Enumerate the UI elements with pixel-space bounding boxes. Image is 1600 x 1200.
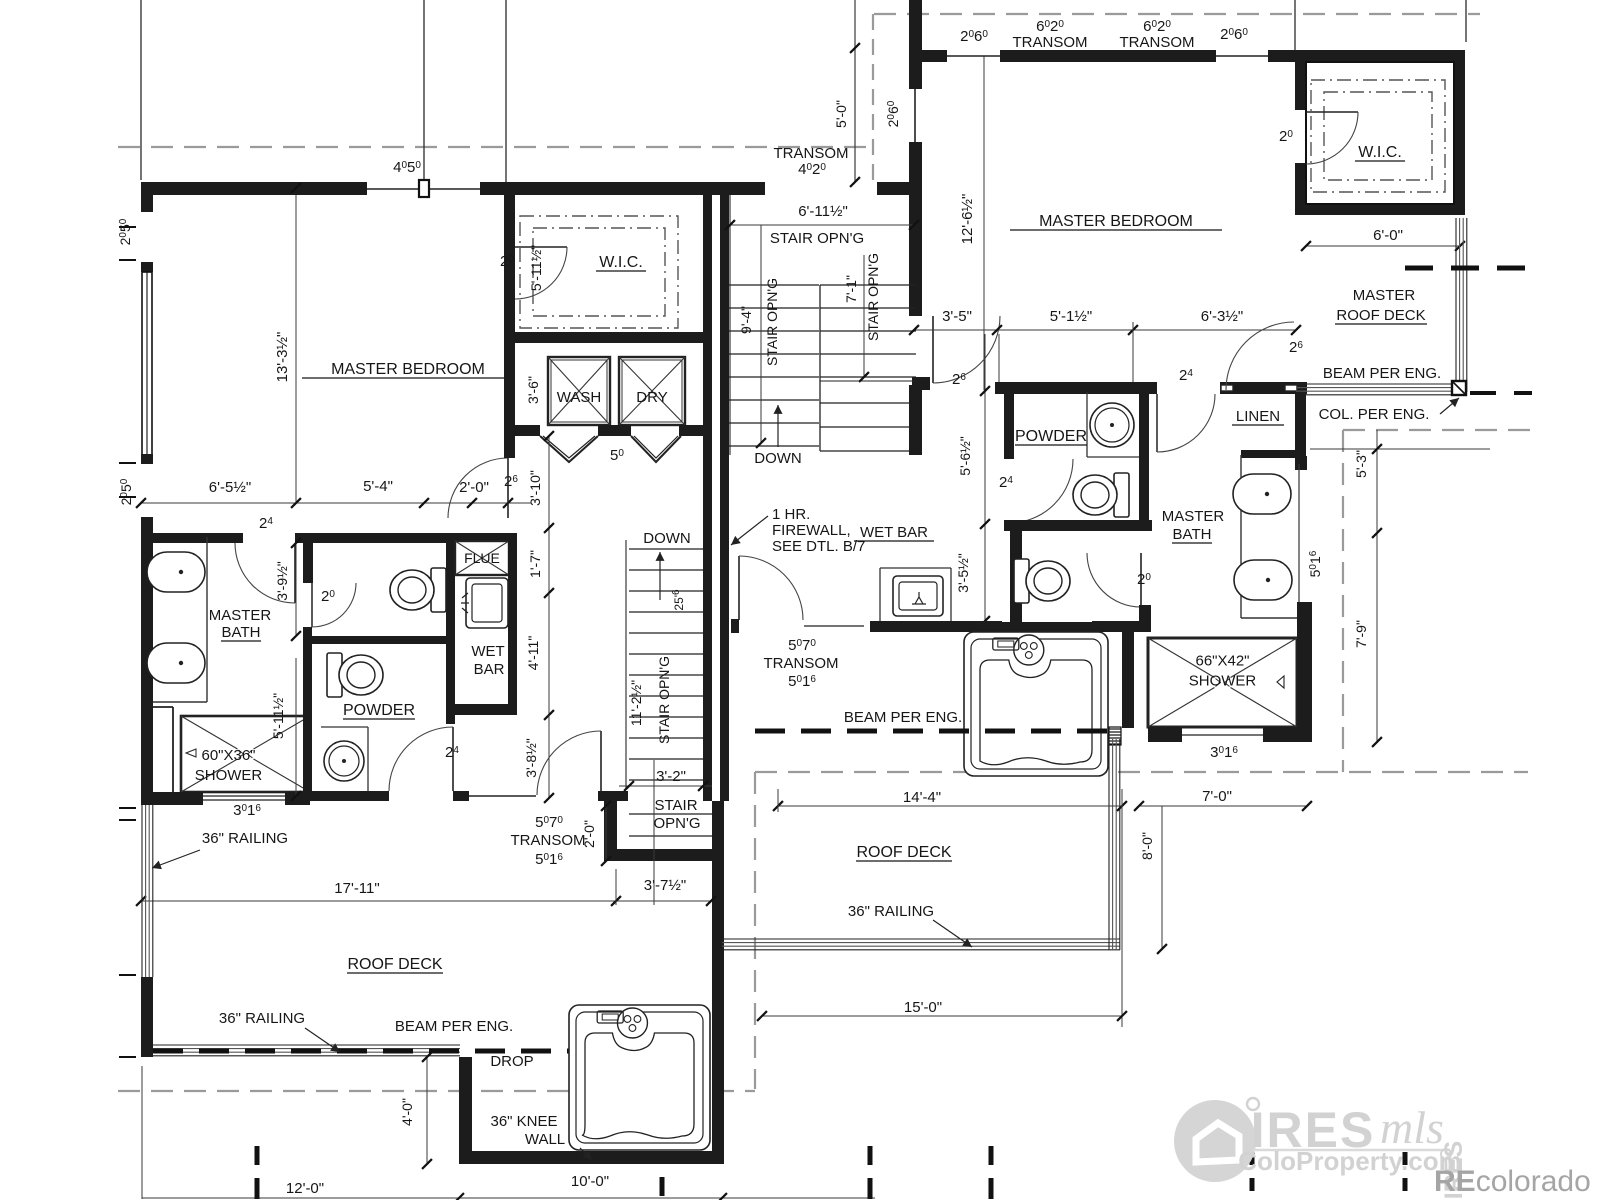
svg-text:WET: WET	[471, 643, 504, 660]
bath chase partition	[172, 707, 174, 794]
svg-text:17'-11": 17'-11"	[334, 880, 379, 897]
lower right flight treads	[820, 402, 909, 404]
left exterior wall upper corner	[141, 182, 153, 212]
svg-text:4'-0": 4'-0"	[399, 1098, 415, 1126]
right unit top wall east segment	[1268, 50, 1465, 62]
svg-text:SEE DTL. B/7: SEE DTL. B/7	[772, 538, 865, 555]
svg-text:POWDER: POWDER	[343, 702, 415, 719]
svg-text:BEAM PER ENG.: BEAM PER ENG.	[395, 1018, 513, 1035]
svg-text:MASTER: MASTER	[1353, 287, 1416, 304]
shower 60x36	[181, 716, 310, 792]
dryer box DRY	[619, 357, 685, 425]
lower stair direction arrow	[659, 552, 661, 600]
svg-text:OPN'G: OPN'G	[653, 815, 700, 832]
svg-text:STAIR: STAIR	[654, 797, 697, 814]
window 2-6 sill line east	[1216, 55, 1268, 57]
svg-text:DRY: DRY	[636, 389, 667, 406]
col per eng leader	[1440, 398, 1459, 414]
svg-text:REcolorado: REcolorado	[1434, 1165, 1591, 1198]
party wall west leaf	[703, 182, 712, 801]
right powder south wall	[1004, 520, 1152, 531]
right bedroom south wall west	[995, 382, 1157, 394]
svg-text:TRANSOM: TRANSOM	[1013, 34, 1088, 51]
roof overhang dashed vertical connector	[872, 14, 874, 182]
left wall lower solid	[141, 977, 153, 1057]
right powder east wall	[1139, 391, 1149, 520]
bath top wall east	[295, 533, 310, 543]
right deck railing south	[722, 938, 1120, 940]
svg-text:STAIR OPN'G: STAIR OPN'G	[656, 656, 672, 744]
window 4-0x5-0 sill line	[367, 188, 480, 190]
svg-text:3'-5": 3'-5"	[942, 308, 972, 325]
svg-text:WALL: WALL	[525, 1131, 565, 1148]
stair landing line	[820, 376, 916, 378]
right wet bar counter	[880, 567, 951, 569]
svg-text:DROP: DROP	[490, 1053, 533, 1070]
deck corner column block	[1452, 381, 1466, 395]
linen corner piece	[1295, 456, 1307, 470]
bath door arc	[235, 543, 295, 603]
powder east wall	[446, 644, 455, 724]
svg-text:FLUE: FLUE	[464, 550, 500, 566]
right powder sink	[1090, 403, 1134, 447]
extension lines 14-4	[777, 789, 779, 812]
stair jog wall	[877, 182, 909, 195]
stairwell east wall mid	[909, 195, 922, 316]
svg-text:ROOF DECK: ROOF DECK	[347, 956, 442, 973]
svg-text:60"X36": 60"X36"	[201, 747, 255, 764]
right bath east wall lower	[1297, 620, 1312, 742]
right bath sink north	[1233, 474, 1291, 514]
heavy dash right of deck	[1470, 391, 1532, 395]
svg-text:TRANSOM: TRANSOM	[764, 655, 839, 672]
svg-text:8'-0": 8'-0"	[1139, 832, 1155, 860]
right bath east wall stub	[1297, 602, 1312, 629]
svg-text:15'-0": 15'-0"	[904, 999, 942, 1016]
right hall south wall east piece	[1092, 621, 1150, 632]
bath vanity counter line	[206, 537, 208, 702]
extension line x1144	[1132, 322, 1134, 388]
roof overhang dashed right side horizontal	[1343, 429, 1532, 431]
right toilet closet toilet	[1014, 559, 1070, 603]
upper stair treads left flight	[729, 284, 819, 286]
right wet bar sink	[893, 576, 943, 616]
party wall lower (knee wall)	[712, 801, 724, 1164]
svg-text:STAIR OPN'G: STAIR OPN'G	[764, 278, 780, 366]
svg-text:3'-9½": 3'-9½"	[274, 561, 290, 601]
svg-text:TRANSOM: TRANSOM	[774, 145, 849, 162]
knee wall leader	[580, 1148, 592, 1160]
dim line 4-0	[426, 1057, 428, 1164]
stair opening west edge line	[729, 195, 731, 455]
louver door V left	[540, 436, 598, 462]
bath south wall west	[141, 792, 203, 805]
dim line 8-0	[1161, 806, 1163, 949]
right bedroom dim line	[914, 329, 1296, 331]
svg-text:2'-0": 2'-0"	[581, 820, 597, 848]
right unit top wall transom segment	[1000, 50, 1216, 62]
wet bar counter sink	[466, 578, 508, 628]
right hall door arc	[739, 556, 803, 620]
svg-text:WET BAR: WET BAR	[860, 524, 928, 541]
svg-text:6'-3½": 6'-3½"	[1201, 308, 1243, 325]
left unit top wall east segment	[480, 182, 765, 195]
right bath sink south	[1234, 560, 1292, 600]
lower stair opening west wall	[604, 795, 617, 861]
svg-text:7'-1": 7'-1"	[843, 275, 859, 303]
right closet east wall stub	[1139, 605, 1151, 632]
right hall door sill	[804, 625, 864, 627]
upper stair treads right flight	[820, 284, 916, 286]
right toilet closet west wall	[1010, 531, 1022, 622]
left wall railing section	[141, 805, 143, 977]
right railing leader	[933, 920, 972, 947]
left exterior wall mid segment	[141, 517, 153, 805]
dim line right side 5-3 7-9	[1310, 448, 1490, 450]
svg-text:1'-7": 1'-7"	[527, 550, 543, 578]
right hall door leaf	[738, 556, 740, 620]
toilet room door leaf	[311, 583, 313, 627]
svg-text:STAIR OPN'G: STAIR OPN'G	[770, 230, 864, 247]
beam dashed line right deck	[755, 729, 1110, 734]
right unit wic east wall	[1454, 62, 1465, 211]
left railing leader upper	[152, 850, 200, 868]
svg-text:W.I.C.: W.I.C.	[599, 254, 643, 271]
svg-text:6'-11½": 6'-11½"	[798, 203, 848, 220]
shower door triangle	[1277, 676, 1284, 688]
wic right inner wall lines	[1306, 62, 1454, 204]
svg-text:MASTER: MASTER	[209, 607, 272, 624]
svg-text:3'-8½": 3'-8½"	[523, 738, 539, 778]
svg-text:ROOF DECK: ROOF DECK	[856, 844, 951, 861]
svg-text:1 HR.: 1 HR.	[772, 506, 810, 523]
svg-text:5'-3": 5'-3"	[1353, 450, 1369, 478]
divider wall bath/powder	[303, 627, 312, 801]
svg-text:11'-2½": 11'-2½"	[628, 680, 644, 726]
extension line x1295	[1294, 0, 1296, 55]
toilet room west wall upper	[303, 537, 313, 583]
svg-text:ColoProperty.com: ColoProperty.com	[1238, 1146, 1461, 1176]
right deck railing east	[1108, 739, 1110, 950]
right shower south wall east	[1263, 727, 1307, 742]
right powder door arc	[1009, 459, 1073, 523]
hall south wall east stub	[598, 791, 628, 801]
dim line 17-11 and 3-7half	[141, 900, 711, 902]
wic shelving dash-dot inner	[533, 228, 665, 316]
right tub west wall	[955, 621, 964, 632]
svg-text:14'-4": 14'-4"	[903, 789, 941, 806]
svg-text:9'-4": 9'-4"	[738, 306, 754, 334]
roof overhang dashed right side vertical	[1342, 430, 1344, 772]
right unit top wall stub west	[910, 50, 947, 62]
extension line wic wall	[505, 0, 507, 193]
svg-text:3'-10": 3'-10"	[527, 470, 543, 506]
right powder toilet	[1073, 473, 1129, 517]
svg-text:LINEN: LINEN	[1236, 408, 1280, 425]
svg-text:W.I.C.: W.I.C.	[1358, 144, 1402, 161]
svg-text:36" RAILING: 36" RAILING	[219, 1010, 305, 1027]
svg-text:5'-6½": 5'-6½"	[957, 436, 973, 476]
stair opening dim line	[730, 224, 914, 226]
knee wall west	[459, 1057, 472, 1164]
top wall dim tick at 13-3 line	[291, 183, 301, 193]
stair dim line vertical 2	[863, 255, 865, 377]
svg-text:3'-5½": 3'-5½"	[955, 553, 971, 593]
roof overhang dashed line top-right	[874, 13, 1480, 15]
svg-text:6'-5½": 6'-5½"	[209, 479, 251, 496]
extension line 12-6 dim	[983, 56, 985, 390]
wic door arc	[515, 247, 567, 299]
svg-text:6'-0": 6'-0"	[1373, 227, 1403, 244]
left wall window 2-0x5-0 frame	[142, 272, 152, 456]
wic right door arc	[1306, 112, 1358, 164]
dim line 15-0	[762, 1015, 1122, 1017]
svg-text:4'-11": 4'-11"	[525, 636, 541, 671]
right bath vanity counter	[1240, 455, 1242, 618]
bedroom deck door jambs	[1221, 385, 1233, 391]
stair direction arrow up	[777, 405, 779, 447]
svg-text:SHOWER: SHOWER	[195, 767, 263, 784]
bath sink north	[147, 552, 205, 592]
right bedroom door arc	[933, 316, 1000, 383]
extension line 13-3 dim	[295, 183, 297, 503]
stair divider line	[819, 285, 821, 451]
wic right door leaf	[1306, 111, 1358, 113]
dim line 14-4	[778, 805, 1122, 807]
dim line 7-0	[1139, 805, 1307, 807]
wic right bottom wall	[1295, 204, 1465, 215]
powder sink	[324, 741, 364, 781]
svg-text:BAR: BAR	[474, 661, 505, 678]
wic bottom wall / washdry top wall	[504, 332, 712, 343]
right hall south wall	[870, 621, 1002, 632]
window 4-0x5-0 block	[419, 180, 429, 197]
svg-text:MASTER BEDROOM: MASTER BEDROOM	[1039, 213, 1193, 230]
svg-text:STAIR OPN'G: STAIR OPN'G	[865, 253, 881, 341]
roof overhang dashed line lower-left	[118, 1090, 755, 1092]
lower stair treads	[629, 548, 703, 550]
wic right south-left wall	[1295, 163, 1306, 211]
wic shelving dash-dot outer	[520, 216, 678, 328]
toilet room toilet	[390, 568, 446, 612]
heavy dashed marks right edge	[1405, 266, 1530, 271]
watermark underline	[1253, 1149, 1450, 1152]
bottom dim line	[142, 1197, 875, 1199]
section marker dashes x1252	[1250, 1152, 1255, 1165]
svg-text:5'-1½": 5'-1½"	[1050, 308, 1092, 325]
wall right of hot tub	[1122, 628, 1134, 728]
bath door leaf	[294, 543, 296, 603]
svg-text:BATH: BATH	[222, 624, 261, 641]
bath top wall west	[153, 533, 243, 543]
left wall window cap upper	[141, 262, 153, 272]
deck railing east	[1455, 218, 1457, 392]
right shower sill	[1182, 734, 1263, 736]
knee wall south	[459, 1151, 722, 1164]
stairwell window line	[914, 89, 916, 142]
hall transom door leaf	[600, 731, 602, 795]
svg-text:3'-7½": 3'-7½"	[644, 877, 686, 894]
window 2-6 sill line west	[947, 55, 1000, 57]
wet bar south wall	[455, 704, 517, 715]
svg-text:COL. PER ENG.: COL. PER ENG.	[1319, 406, 1430, 423]
section marker dashes x257	[255, 1146, 260, 1165]
right unit hall dim line vertical	[984, 334, 986, 621]
svg-text:12'-6½": 12'-6½"	[959, 194, 976, 245]
section marker dashes x1405	[1403, 1152, 1408, 1165]
svg-text:10'-0": 10'-0"	[571, 1173, 609, 1190]
powder toilet	[327, 653, 383, 697]
watermark house glyph	[1196, 1123, 1239, 1162]
svg-text:13'-3½": 13'-3½"	[274, 332, 291, 383]
left unit top wall west segment	[141, 182, 367, 195]
extension line for 3-7half	[615, 869, 617, 905]
firewall note leader	[731, 516, 768, 545]
watermark IRES logo disc	[1174, 1100, 1256, 1182]
svg-text:7'-0": 7'-0"	[1202, 788, 1232, 805]
right powder counter	[1086, 392, 1088, 457]
section marker dashes x870	[868, 1146, 873, 1165]
stair dim line vertical	[760, 225, 762, 443]
hall south wall west	[312, 791, 389, 801]
svg-text:3'-6": 3'-6"	[525, 376, 541, 404]
wet bar east wall	[508, 533, 517, 715]
lower stair west edge line	[625, 540, 627, 790]
washer box WASH	[548, 357, 610, 425]
left deck south railing	[153, 1044, 460, 1046]
bedroom hall door swing arc	[448, 458, 508, 518]
roof overhang dashed vertical lower-middle	[754, 772, 756, 1089]
svg-text:TRANSOM: TRANSOM	[511, 832, 586, 849]
louver door V right	[631, 436, 681, 462]
railing hatch block right	[1109, 727, 1121, 745]
powder door arc	[389, 727, 453, 791]
flue box FLUE	[455, 541, 509, 575]
stairwell upper east wall top	[909, 0, 922, 89]
party wall east leaf	[720, 182, 729, 801]
bedroom south dimension line	[141, 502, 531, 504]
wic right north-left wall	[1295, 62, 1306, 110]
washdry bottom wall segments	[504, 425, 540, 436]
toilet room top wall	[303, 533, 508, 543]
hall transom door arc	[537, 731, 601, 795]
section marker dash x662	[660, 1177, 665, 1196]
hall south wall mid	[453, 791, 469, 801]
extension line left wall	[140, 0, 142, 180]
stairwell east wall below door	[909, 385, 922, 455]
section marker dashes x991	[989, 1146, 994, 1165]
svg-text:TRANSOM: TRANSOM	[1120, 34, 1195, 51]
extension line bottom left	[141, 1066, 143, 1199]
right bedroom door leaf 2-6	[932, 316, 934, 383]
svg-text:66"X42": 66"X42"	[1195, 653, 1249, 670]
hot tub enclosure wall west	[945, 631, 947, 633]
toilet room south wall	[312, 636, 455, 644]
svg-text:36" RAILING: 36" RAILING	[848, 903, 934, 920]
lower stair opening dim line	[619, 785, 712, 787]
stairwell east wall segment	[909, 142, 922, 195]
svg-text:36" RAILING: 36" RAILING	[202, 830, 288, 847]
powder NE door arc	[1157, 394, 1215, 452]
svg-text:5'-11½": 5'-11½"	[528, 245, 544, 291]
right toilet closet door leaf	[1140, 553, 1142, 607]
svg-text:7'-9": 7'-9"	[1353, 620, 1369, 648]
svg-text:2'-0": 2'-0"	[459, 479, 489, 496]
svg-text:BEAM PER ENG.: BEAM PER ENG.	[1323, 365, 1441, 382]
bedroom hall door leaf	[507, 458, 509, 518]
hot tub right unit	[964, 632, 1108, 776]
hot tub left unit	[569, 1005, 710, 1150]
right toilet closet door arc	[1087, 553, 1141, 607]
left deck corner	[141, 1043, 153, 1057]
roof overhang dashed line mid-right	[755, 771, 1528, 773]
toilet room east wall	[446, 543, 455, 636]
svg-text:BEAM PER ENG.: BEAM PER ENG.	[844, 709, 962, 726]
transom sill line	[469, 795, 536, 797]
svg-text:POWDER: POWDER	[1015, 428, 1087, 445]
powder door leaf	[452, 727, 454, 791]
shower 66x42	[1148, 638, 1297, 727]
right hall door stub	[731, 619, 739, 633]
stair landing wall piece	[912, 377, 930, 390]
right powder west wall	[1004, 394, 1014, 459]
left railing leader lower	[305, 1028, 340, 1052]
left wall dim ticks	[119, 226, 136, 228]
toilet room door arc	[312, 583, 356, 627]
svg-text:36" KNEE: 36" KNEE	[490, 1113, 557, 1130]
svg-text:DOWN: DOWN	[643, 530, 691, 547]
svg-text:5'-11½": 5'-11½"	[270, 693, 286, 739]
left wall window cap lower	[141, 454, 153, 464]
wic door leaf	[515, 246, 567, 248]
shower door sill lines	[203, 795, 285, 797]
linen south wall	[1241, 450, 1295, 458]
svg-text:12'-0": 12'-0"	[286, 1180, 324, 1197]
roof overhang dashed line upper-left	[118, 146, 874, 148]
svg-text:MASTER BEDROOM: MASTER BEDROOM	[331, 361, 485, 378]
bedroom deck door arc	[1226, 322, 1294, 390]
right toilet closet south wall	[990, 622, 1092, 636]
right bedroom south wall east	[1220, 382, 1307, 394]
extension line x1466	[1465, 0, 1467, 42]
wic right shelving dash-dot outer	[1311, 80, 1445, 192]
svg-text:FIREWALL,: FIREWALL,	[772, 522, 851, 539]
svg-text:DOWN: DOWN	[754, 450, 802, 467]
extension line right 5-0 dim	[854, 0, 856, 182]
powder NE door leaf	[1156, 394, 1158, 452]
left bath dim line vertical	[295, 543, 297, 636]
lower stair opening south wall	[604, 849, 712, 861]
svg-text:MASTER: MASTER	[1162, 508, 1225, 525]
svg-text:SHOWER: SHOWER	[1189, 673, 1257, 690]
svg-text:WASH: WASH	[557, 389, 601, 406]
svg-text:BATH: BATH	[1173, 526, 1212, 543]
wic left wall / hall west wall	[504, 195, 515, 458]
linen east wall	[1295, 394, 1306, 468]
heavy dashed beam left deck	[153, 1049, 710, 1054]
right shower south wall west	[1148, 727, 1182, 742]
wic right shelving dash-dot inner	[1324, 92, 1432, 180]
bath sink south	[147, 643, 205, 683]
extension line window centerline	[423, 0, 425, 181]
left deck dim ticks west	[119, 807, 136, 809]
svg-text:5'-4": 5'-4"	[363, 478, 393, 495]
deck railing south	[1296, 383, 1466, 385]
bath south wall east	[285, 792, 310, 805]
lower stair box treads	[629, 813, 712, 815]
powder counter lines	[321, 726, 368, 728]
svg-text:ROOF DECK: ROOF DECK	[1336, 307, 1425, 324]
